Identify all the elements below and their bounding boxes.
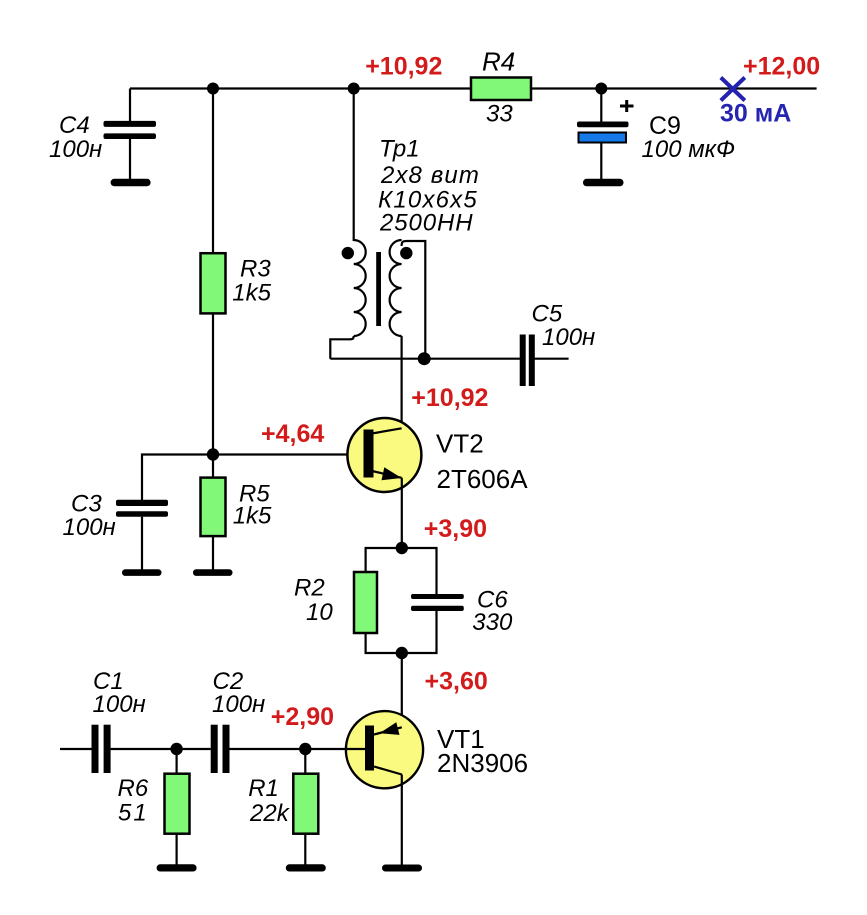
wire C2 to VT1 base [230, 748, 366, 750]
svg-text:100н: 100н [212, 691, 265, 718]
transistor VT1 [346, 711, 423, 788]
ground C4 [111, 179, 151, 186]
wire R1 to ground [304, 834, 306, 865]
wire primary bottom hook [330, 336, 353, 359]
svg-text:+3,90: +3,90 [424, 515, 487, 543]
svg-text:2N3906: 2N3906 [437, 748, 528, 778]
svg-text:C4: C4 [59, 112, 90, 139]
polarity plus sign C9 [620, 100, 634, 112]
node bottom net junction [418, 352, 431, 365]
svg-text:100 мкФ: 100 мкФ [642, 136, 736, 163]
wire R2/C6 top branch [366, 548, 437, 595]
transformer Tp1 core [376, 252, 381, 326]
svg-text:100н: 100н [49, 136, 102, 163]
ground C9 [583, 179, 624, 187]
wire R6 to ground [176, 834, 178, 865]
svg-text:R3: R3 [240, 256, 271, 283]
wire +12V top rail [130, 87, 817, 89]
wire rail to R3 [212, 89, 214, 255]
wire C1 to C2 [111, 748, 211, 750]
svg-text:10: 10 [306, 599, 333, 626]
capacitor C4 [104, 121, 157, 139]
svg-text:+10,92: +10,92 [365, 53, 442, 81]
wire rail to transformer primary [353, 89, 355, 242]
wire C9 bottom lead [600, 143, 602, 181]
svg-text:100н: 100н [63, 514, 116, 541]
svg-text:1k5: 1k5 [232, 280, 271, 307]
node rail/C9 junction [595, 83, 607, 95]
wire VT2 emitter down [401, 478, 403, 548]
wire node to VT2 base [213, 453, 364, 455]
wire secondary top to bottom net [402, 241, 426, 359]
node R1 junction [299, 743, 311, 755]
svg-text:+3,60: +3,60 [425, 667, 488, 695]
ground R5 [193, 569, 233, 576]
wire C5 output lead [535, 358, 569, 360]
resistor R6 [165, 774, 190, 834]
svg-text:+4,64: +4,64 [261, 420, 324, 448]
wire node to C3 [142, 455, 213, 501]
capacitor C3 [116, 500, 168, 517]
svg-text:2Т606А: 2Т606А [437, 464, 529, 494]
wire R3 to base node [212, 313, 214, 454]
wire C4 bottom lead [129, 139, 131, 179]
capacitor C6 [411, 594, 464, 611]
wire input lead [60, 748, 92, 750]
transformer Tp1 secondary winding [390, 240, 402, 336]
resistor R3 [201, 253, 226, 313]
svg-text:100н: 100н [542, 324, 595, 351]
wire bottom net to C5 [330, 358, 520, 360]
node R2/C6 bottom junction [396, 647, 408, 659]
svg-text:51: 51 [118, 800, 149, 827]
svg-text:2х8 вит: 2х8 вит [380, 162, 480, 189]
measurement X mark on rail [721, 78, 745, 101]
capacitor C5 [520, 335, 535, 387]
svg-text:1k5: 1k5 [233, 503, 272, 530]
svg-text:R2: R2 [294, 575, 325, 602]
node rail/R3 junction [207, 83, 219, 95]
svg-text:+12,00: +12,00 [743, 52, 820, 80]
svg-text:2500НН: 2500НН [379, 209, 473, 236]
capacitor C1 [92, 725, 111, 773]
svg-text:33: 33 [486, 101, 513, 128]
svg-text:VT2: VT2 [436, 429, 484, 459]
wire C9 top lead [600, 89, 602, 123]
wire secondary bottom to VT2 collector [401, 336, 403, 429]
capacitor C9 electrolytic [577, 122, 629, 143]
phase dot primary winding [342, 247, 354, 259]
node R6 junction [170, 743, 182, 755]
resistor R2 [354, 572, 377, 633]
svg-text:R6: R6 [118, 775, 149, 802]
svg-text:R4: R4 [482, 47, 515, 77]
svg-text:+2,90: +2,90 [271, 703, 334, 731]
svg-text:100н: 100н [93, 691, 146, 718]
wire R5 to ground [212, 536, 214, 570]
transistor VT2 [347, 418, 421, 492]
wire node to R1 [304, 749, 306, 774]
phase dot secondary winding [400, 247, 412, 259]
svg-text:30 мА: 30 мА [720, 100, 791, 128]
wire R2/C6 bottom branch [366, 610, 437, 653]
resistor R4 [471, 78, 531, 101]
svg-text:22k: 22k [249, 800, 291, 827]
svg-text:330: 330 [472, 609, 513, 636]
node VT2 base junction [207, 448, 219, 460]
wire C4 top lead [129, 89, 131, 122]
svg-text:R1: R1 [248, 775, 279, 802]
svg-text:Тр1: Тр1 [379, 136, 420, 163]
resistor R1 [293, 774, 318, 834]
wire node to R5 [212, 455, 214, 479]
resistor R5 [201, 478, 226, 536]
wire node to VT1 emitter [401, 653, 403, 727]
transformer Tp1 primary winding [354, 240, 366, 336]
ground VT1 [382, 865, 422, 872]
wire VT1 collector to ground [401, 775, 403, 866]
node R2/C6 top junction [396, 542, 408, 554]
ground R1 [286, 864, 326, 871]
node rail/transformer junction [348, 83, 360, 95]
capacitor C2 [211, 725, 230, 773]
svg-text:+10,92: +10,92 [411, 384, 488, 412]
wire C3 bottom lead [141, 517, 143, 570]
ground C3 [122, 569, 162, 576]
ground R6 [157, 864, 197, 871]
wire node to R6 [176, 749, 178, 774]
